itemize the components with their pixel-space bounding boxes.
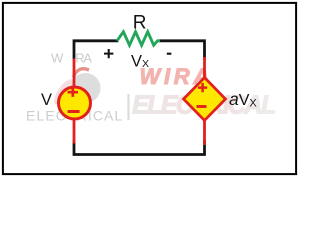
wire top-left segment with corner (74, 41, 117, 58)
resistor R (117, 32, 160, 45)
label + (Vx polarity) (104, 49, 113, 58)
wire red lead of dependent source (203, 57, 206, 145)
wire red lead of source V (73, 59, 76, 144)
svg-text:V: V (41, 91, 52, 109)
dependent source aVx (184, 78, 226, 121)
wire bottom segment with corners (74, 141, 205, 155)
svg-text:R: R (133, 13, 147, 34)
label - (Vx polarity) (167, 53, 172, 55)
svg-text:WIRA: WIRA (51, 51, 92, 66)
wire top-right segment with corner (160, 41, 205, 58)
voltage source V (59, 87, 91, 119)
